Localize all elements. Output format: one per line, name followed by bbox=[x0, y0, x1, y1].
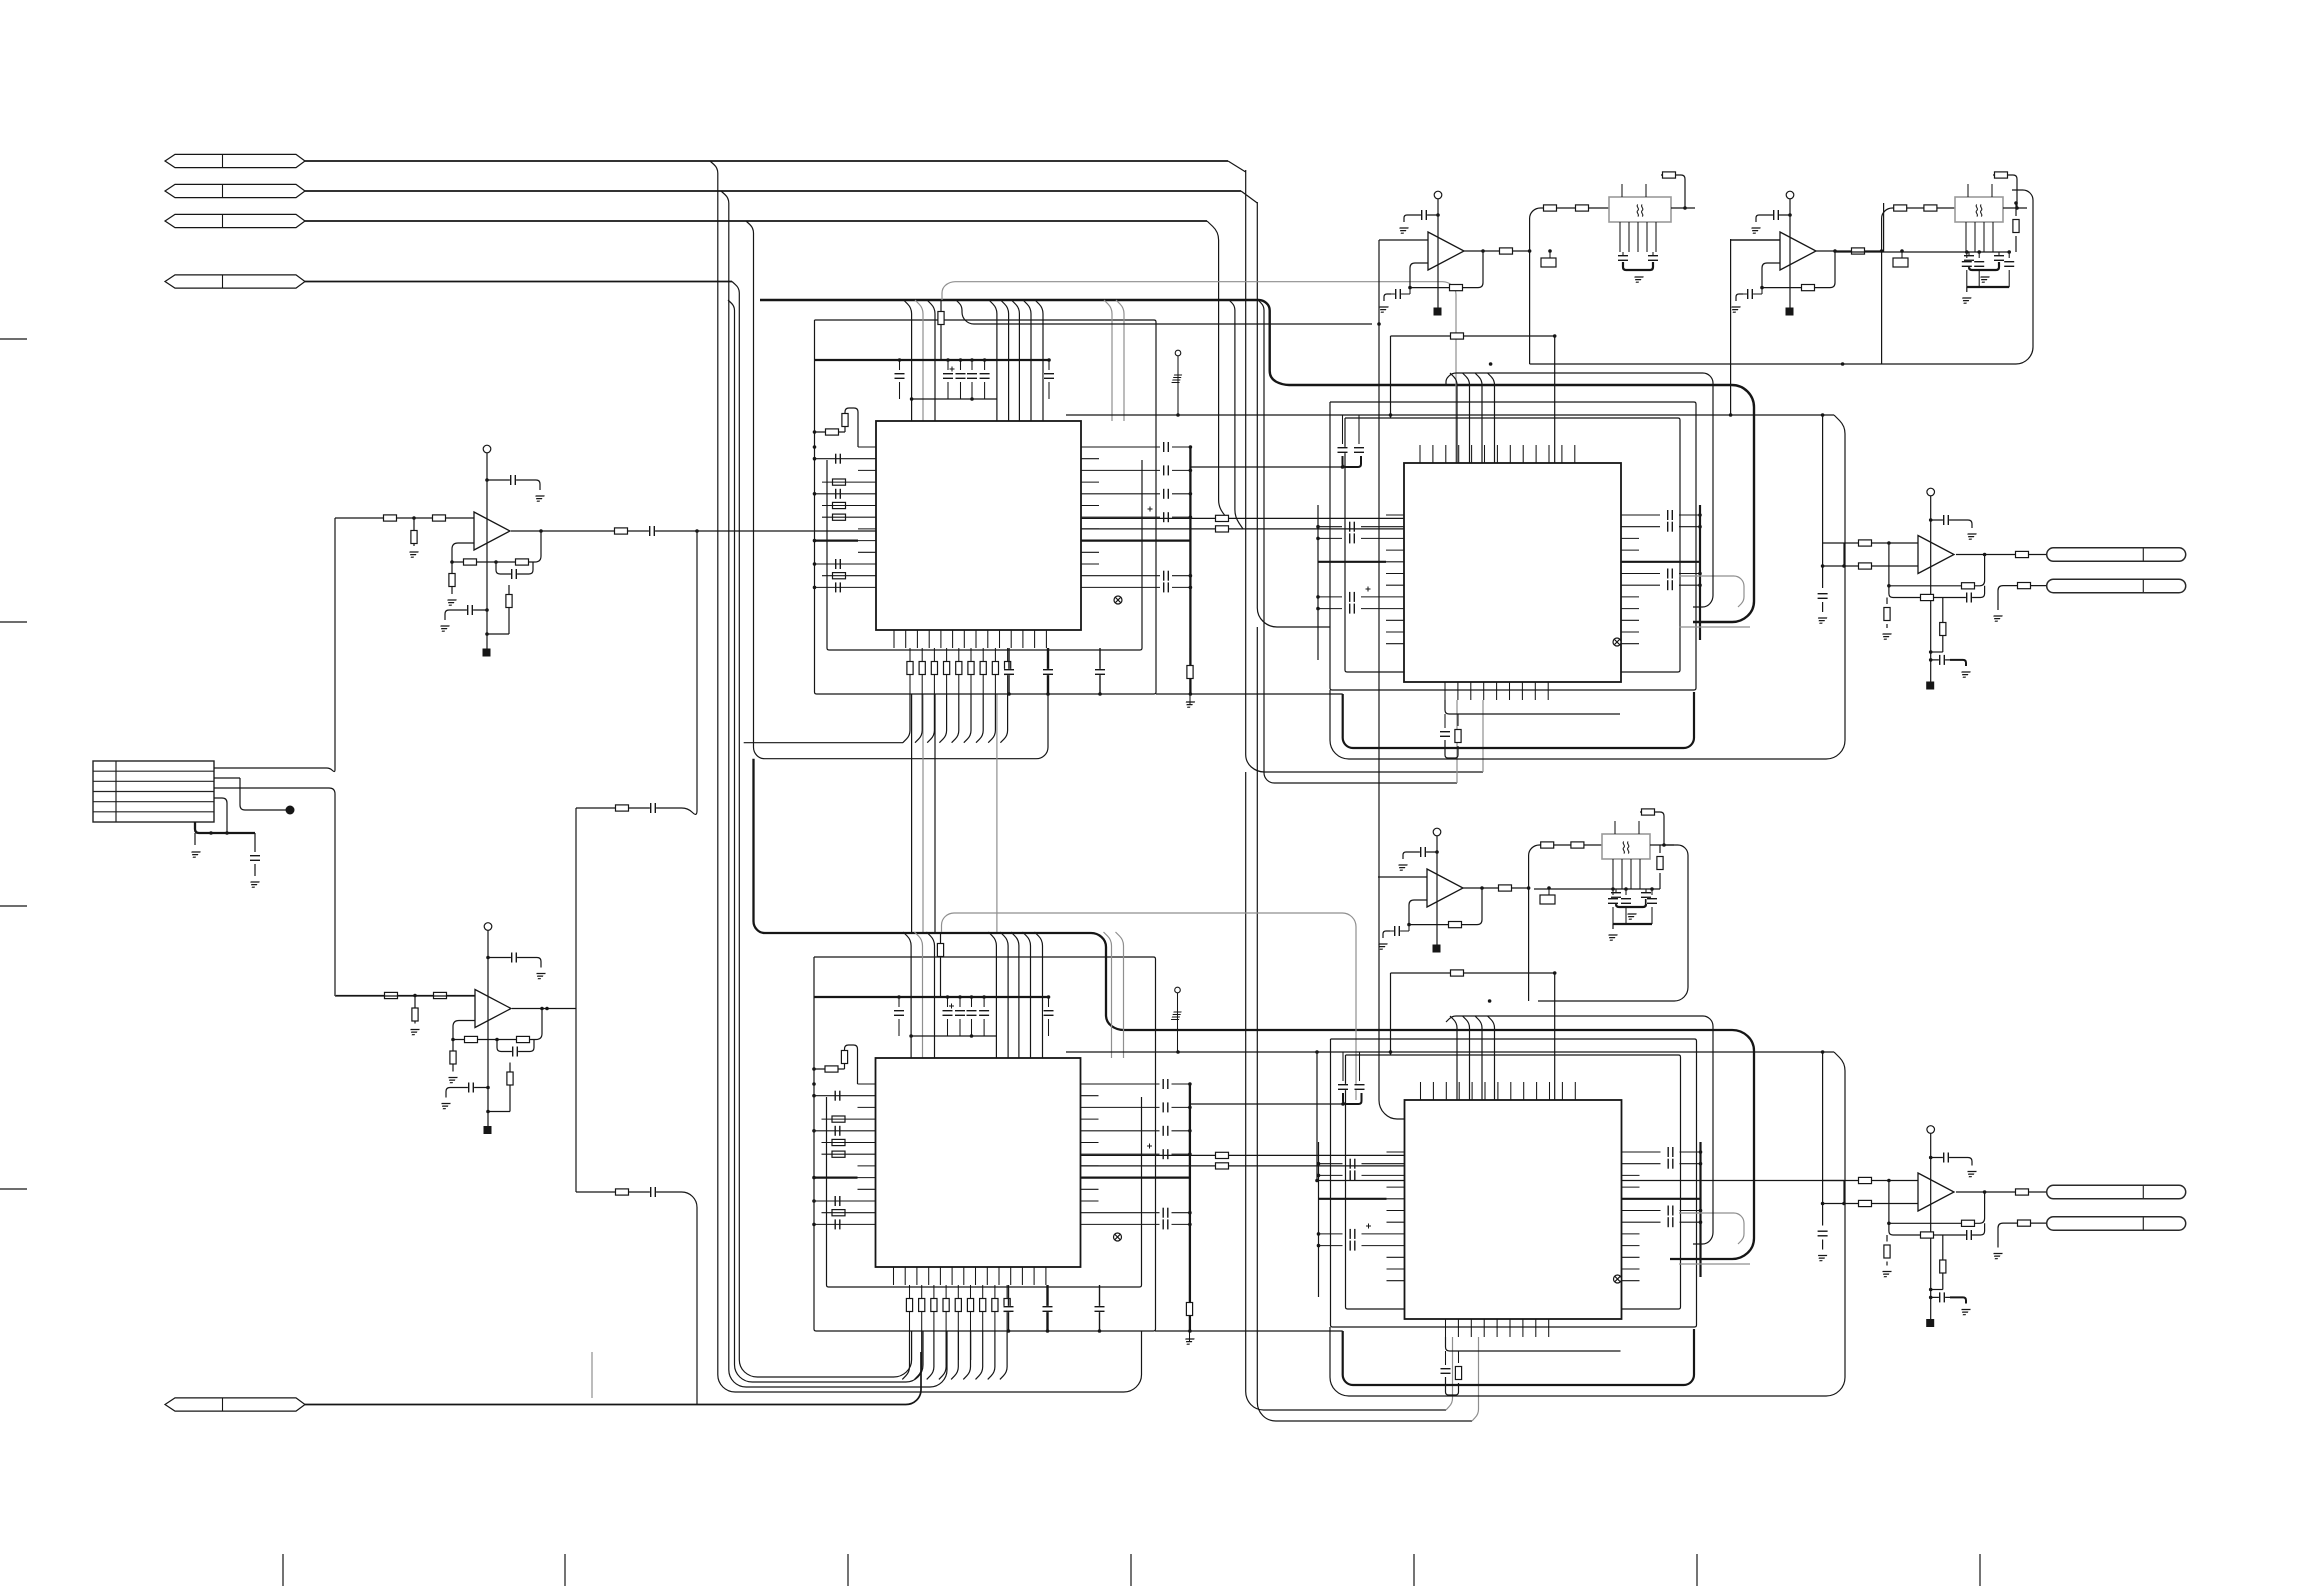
capacitor U2 decouple 972 bbox=[966, 1010, 977, 1016]
pin U1 left 9 bbox=[858, 540, 876, 542]
resistor A2 in2 bbox=[434, 992, 447, 998]
wire U3 rcap2 585.2 bbox=[1679, 584, 1700, 586]
wire U2 R 517.2 bbox=[1099, 1153, 1160, 1155]
pin U1 bottom 10 bbox=[999, 630, 1001, 648]
resistor F3 out bbox=[1657, 857, 1663, 870]
pin U4 left 5 bbox=[1387, 1198, 1405, 1200]
net connector J5 bbox=[165, 1398, 305, 1411]
ground C1 res bbox=[1881, 634, 1892, 639]
op-amp A1 bbox=[474, 512, 510, 550]
capacitor C1 in bbox=[1817, 593, 1828, 599]
capacitor U1 decouple 972 bbox=[967, 373, 978, 379]
pin U4 top 3 bbox=[1445, 1082, 1447, 1100]
junction U3 rc 526.7 bbox=[1698, 525, 1702, 529]
wire A1 fb cap loop bbox=[496, 562, 533, 574]
pin U4 top 12 bbox=[1561, 1082, 1563, 1100]
wire U1 L5 bbox=[822, 516, 858, 518]
junction U1 rail 899.5 bbox=[898, 358, 902, 362]
pin U4 bottom 3 bbox=[1470, 1319, 1472, 1337]
U4 polarized mark bbox=[1366, 1224, 1371, 1229]
pin U4 top 9 bbox=[1523, 1082, 1525, 1100]
capacitor A2 low bbox=[468, 1082, 474, 1093]
junction F2 2009.2 bbox=[2007, 250, 2011, 254]
wire A2 fb2 bbox=[453, 1009, 542, 1040]
wire B2 fout bbox=[2003, 207, 2027, 209]
wire B2 trim lead bbox=[1901, 251, 1903, 258]
wire B3 fb2 bbox=[1409, 888, 1482, 925]
wire B3 fbcap drop bbox=[1408, 925, 1410, 931]
resistor B3 out bbox=[1499, 885, 1512, 891]
capacitor B3 fb bbox=[1394, 926, 1400, 937]
capacitor A1 low bbox=[467, 605, 473, 616]
pin U2 bottom 11 bbox=[1010, 1267, 1012, 1285]
pin U1 right 10 bbox=[1081, 551, 1099, 553]
junction A1 low2 bbox=[485, 632, 489, 636]
wire U2 bres merge 1 bbox=[902, 1331, 909, 1379]
wire U2 bcap lead 1100 bbox=[1099, 1285, 1101, 1331]
junction B2 supply bbox=[1788, 213, 1792, 217]
capacitor U2 decouple 1049 bbox=[1043, 1010, 1054, 1016]
wire IC4 top feed 4 bbox=[1488, 1016, 1495, 1100]
wire U1U2 tie 4 bbox=[996, 694, 998, 932]
junction y415 b bbox=[1389, 413, 1393, 417]
resistor U1 bottom 3 bbox=[931, 662, 937, 675]
border tick left 3 bbox=[0, 905, 27, 907]
wire F3 res lead bbox=[1659, 845, 1661, 853]
net stub A1 bbox=[483, 649, 491, 657]
bus vertical 2 (net2 drop) bbox=[721, 191, 947, 1387]
wire U2 bres merge 5 bbox=[951, 1331, 958, 1379]
ground C2 supply bbox=[1966, 1172, 1977, 1177]
resistor U1 L2 bbox=[833, 479, 846, 485]
junction B3 out bbox=[1480, 886, 1484, 890]
wire U1 L9 bbox=[815, 586, 859, 588]
net connector J3 bbox=[165, 214, 305, 227]
wire gray U4 bottom pin riser 1 bbox=[1446, 1337, 1453, 1410]
resistor C1 gnd bbox=[1884, 608, 1890, 621]
wire B1 input bbox=[1379, 239, 1428, 241]
wire y973 feed bbox=[1391, 972, 1555, 974]
pin U3 left 2 bbox=[1386, 526, 1404, 528]
pin U1 bottom 7 bbox=[963, 630, 965, 648]
pin U1 right 13 bbox=[1081, 586, 1099, 588]
pin B1 fb4 bbox=[1655, 222, 1657, 252]
pin U4 right 10 bbox=[1622, 1256, 1640, 1258]
wire C1 pill2 feed bbox=[1998, 586, 2047, 610]
junction U1 R 493.8 bbox=[1189, 492, 1193, 496]
resistor U1 L4 bbox=[833, 502, 846, 508]
wire U2 tp lead bbox=[1177, 993, 1179, 1052]
pin B2 fb2 bbox=[1983, 222, 1985, 252]
pin U4 bottom 7 bbox=[1522, 1319, 1524, 1337]
wire U4 rcap2 515 bbox=[1680, 1151, 1701, 1153]
capacitor U4 R 515 bbox=[1667, 1147, 1673, 1158]
junction U1 lrail 458.7 bbox=[813, 457, 817, 461]
wire A2 low res lead bbox=[509, 1063, 511, 1112]
wire U3 rcap 526.7 bbox=[1639, 526, 1660, 528]
wire B1 bias bbox=[1437, 199, 1439, 310]
wire U1 decouple rail bbox=[815, 359, 1050, 361]
resistor U1 bottom 6 bbox=[968, 662, 974, 675]
resistor A2 fb2 bbox=[517, 1036, 530, 1042]
wire U2 R 575.7 bbox=[1099, 1212, 1160, 1214]
pin U4 left 8 bbox=[1387, 1233, 1405, 1235]
ground A2 fb bbox=[447, 1078, 458, 1083]
wire U1 L6 thick bbox=[815, 539, 859, 541]
junction U3 lc 538.4 bbox=[1316, 537, 1320, 541]
capacitor U2 R 517.2 bbox=[1162, 1149, 1168, 1160]
pin U3 bottom 2 bbox=[1457, 682, 1459, 700]
pin U3 right 4 bbox=[1621, 549, 1639, 551]
wire U2 bcap lead 1048 bbox=[1046, 1285, 1048, 1331]
pin U4 bottom 2 bbox=[1457, 1319, 1459, 1337]
wire net3 to top bus and U1 loop bbox=[746, 221, 1048, 759]
pin U4 right 3 bbox=[1622, 1174, 1640, 1176]
wire B2 loop left bbox=[1881, 251, 1883, 364]
wire A2 in feed bbox=[335, 995, 475, 997]
wire B2 input h bbox=[1731, 239, 1780, 241]
wire bus drop 1234 bbox=[1229, 300, 1243, 529]
wire U1 cap lead 960.5 bbox=[960, 360, 962, 370]
net stub A2 bbox=[484, 1126, 492, 1134]
pin U4 top 1 bbox=[1420, 1082, 1422, 1100]
shield tie U2 bbox=[1114, 1233, 1122, 1241]
wire B2 fo bus bbox=[1969, 262, 1999, 270]
junction B2 fout bbox=[2015, 206, 2019, 210]
pin U4 right 9 bbox=[1622, 1245, 1640, 1247]
wire U3 rcap 585.2 bbox=[1639, 584, 1660, 586]
wire U2 R2 447 bbox=[1172, 1083, 1190, 1085]
wire net y415 bbox=[1066, 414, 1834, 416]
IC U3 bbox=[1404, 463, 1621, 682]
wire U1 top feed 1019.4 bbox=[1011, 300, 1019, 421]
ground A1 divider bbox=[408, 552, 419, 557]
capacitor C2 supply bbox=[1943, 1152, 1949, 1163]
wire U1 R 470.4 bbox=[1099, 469, 1160, 471]
junction B2 trim bbox=[1900, 249, 1904, 253]
capacitor F3 1626 bbox=[1621, 898, 1632, 904]
wire U1 bres merge 1 bbox=[903, 694, 910, 743]
wire block gnd bus bbox=[195, 822, 255, 833]
wire U2 top feed 923 bbox=[915, 932, 923, 1058]
pin B1 fb2 bbox=[1637, 222, 1639, 252]
wire C2 supply cap lead bbox=[1931, 1157, 1958, 1159]
resistor B1 out bbox=[1500, 248, 1513, 254]
wire B3 input bbox=[1378, 876, 1427, 878]
resistor link 1155.4 bbox=[1216, 1152, 1229, 1158]
wire B3 trim lead bbox=[1548, 888, 1550, 895]
pin U2 left 3 bbox=[858, 1106, 876, 1108]
junction U1 lrail 587.4 bbox=[813, 586, 817, 590]
pin U4 top 6 bbox=[1484, 1082, 1486, 1100]
junction U1 bottom 1009 bbox=[1007, 692, 1011, 696]
junction B1 out2 bbox=[1528, 249, 1532, 253]
wire IC3 top feed 2 bbox=[1463, 373, 1470, 463]
wire B1 fbcap drop bbox=[1409, 288, 1411, 294]
wire U1 L8 bbox=[822, 575, 858, 577]
wire U1 top feed 996.9 bbox=[989, 300, 997, 421]
U3 polarized mark bbox=[1366, 587, 1371, 592]
pin U4 top 11 bbox=[1549, 1082, 1551, 1100]
border tick bottom 4 bbox=[1130, 1554, 1132, 1586]
pin U4 right 6 bbox=[1622, 1210, 1640, 1212]
wire U1 L3 bbox=[815, 493, 859, 495]
wire A2 fb1 bbox=[453, 1021, 475, 1040]
ground C2 res bbox=[1881, 1272, 1892, 1277]
capacitor U2 L7 bbox=[834, 1196, 840, 1207]
resistor B3 f1 bbox=[1541, 842, 1554, 848]
capacitor B2 fo1 bbox=[1964, 255, 1975, 261]
junction B2 loop bbox=[1841, 362, 1845, 366]
wire U1 top feed 923 bbox=[915, 300, 923, 421]
wire U1 L2 bbox=[822, 481, 858, 483]
wire net y1052 bbox=[1066, 1051, 1834, 1053]
junction U2 rrail bottom bbox=[1188, 1329, 1192, 1333]
pin U2 left 9 bbox=[858, 1177, 876, 1179]
wire F3 cap lead 1613 bbox=[1612, 889, 1614, 895]
connector block row 2 bbox=[93, 780, 214, 782]
wire B2 bias bbox=[1789, 199, 1791, 310]
wire U2 decouple rail bbox=[814, 996, 1049, 998]
pin U3 bottom 7 bbox=[1521, 682, 1523, 700]
capacitor U2 bottom 1100 bbox=[1094, 1306, 1105, 1312]
capacitor U1 R 587.4 bbox=[1163, 582, 1169, 593]
pin U2 right 10 bbox=[1081, 1188, 1099, 1190]
junction B1 fb bbox=[1408, 286, 1412, 290]
wire U2 outer loop bbox=[814, 957, 1156, 1331]
wire B3 fo2 lead bbox=[1645, 889, 1647, 892]
wire U2 top feed 996.9 bbox=[988, 932, 996, 1058]
pin U2 bottom 7 bbox=[963, 1267, 965, 1285]
ground C1 in bbox=[1816, 618, 1827, 623]
wire U2 cap lead2 960.5 bbox=[959, 1019, 961, 1036]
junction U2 bottom 1009 bbox=[1007, 1329, 1011, 1333]
wire U2 top feed 1031 bbox=[1023, 932, 1031, 1058]
wire U2 bres merge 2 bbox=[915, 1331, 922, 1379]
resistor U1 bottom 9 bbox=[1005, 662, 1011, 675]
wire U2 bres merge 3 bbox=[927, 1331, 934, 1379]
wire B3 filter in bbox=[1529, 845, 1602, 888]
capacitor U2 R 587.4 bbox=[1162, 1219, 1168, 1230]
junction U2 rail 948 bbox=[946, 995, 950, 999]
wire U4 L thick bbox=[1319, 1198, 1387, 1200]
bus vertical 1 (net1 drop) bbox=[710, 161, 1142, 1392]
wire U2 R thick bbox=[1081, 1176, 1190, 1178]
pin U1 bottom 2 bbox=[905, 630, 907, 648]
capacitor U3 L 596.9 bbox=[1349, 591, 1355, 602]
pin B2 fb1 bbox=[1974, 222, 1976, 252]
wire U4 bottom thick hook bbox=[1343, 1329, 1694, 1385]
capacitor row808 bbox=[650, 803, 656, 814]
wire U2 L3 bbox=[814, 1130, 858, 1132]
junction y973 bbox=[1553, 971, 1557, 975]
wire U1 R 587.4 bbox=[1099, 586, 1160, 588]
wire U4 bcap lead bbox=[1445, 1351, 1447, 1365]
resistor U2 bottom 2 bbox=[919, 1299, 925, 1312]
wire U1 bres lead 2 bbox=[921, 648, 923, 694]
wire U2 L4 bbox=[822, 1142, 858, 1144]
wire row808 bbox=[576, 531, 697, 814]
pin U3 right 8 bbox=[1621, 596, 1639, 598]
wire F3 cap lead 1626 bbox=[1625, 889, 1627, 895]
capacitor F3 1652 bbox=[1647, 898, 1658, 904]
wire U2 cap lead2 899.5 bbox=[898, 1019, 900, 1036]
wire C1 gndres lead bbox=[1886, 598, 1888, 605]
wire C2 in+ extension a bbox=[1317, 1180, 1404, 1182]
ground C1 pill2 bbox=[1992, 616, 2003, 621]
junction A1 out bbox=[539, 529, 543, 533]
wire A1 supply cap lead bbox=[487, 479, 530, 481]
wire B1 fbcap lead bbox=[1391, 293, 1410, 295]
wire U2 UL bbox=[814, 1068, 845, 1070]
capacitor B3 fo1 bbox=[1611, 892, 1622, 898]
wire U4 gray stub a bbox=[1679, 1213, 1744, 1244]
wire U4 rcap 515 bbox=[1640, 1151, 1661, 1153]
wire U1 R 575.7 bbox=[1099, 575, 1160, 577]
resistor U2 pullup bbox=[937, 944, 943, 957]
junction A1 low bbox=[485, 608, 489, 612]
wire U1 bres merge 3 bbox=[927, 694, 934, 743]
shield tie U1 bbox=[1114, 596, 1122, 604]
pin U3 right 7 bbox=[1621, 584, 1639, 586]
wire U2 R2 575.7 bbox=[1172, 1212, 1190, 1214]
wire C2 gndres lead2 bbox=[1886, 1262, 1888, 1266]
wire C2 out line bbox=[1956, 1191, 2047, 1193]
capacitor B2 fb bbox=[1747, 289, 1753, 300]
junction U2 R 575.7 bbox=[1188, 1211, 1192, 1215]
junction B3 out2 bbox=[1527, 886, 1531, 890]
pin B1 fb3 bbox=[1646, 222, 1648, 252]
wire U2 inner loop bbox=[827, 1097, 1142, 1287]
ground block1 bbox=[190, 852, 201, 857]
net connector J1 bbox=[165, 154, 305, 167]
pin U1 left 3 bbox=[858, 469, 876, 471]
pin B1 fb0 bbox=[1619, 222, 1621, 252]
wire U2 cap lead 960.5 bbox=[959, 997, 961, 1007]
capacitor U2 L9 bbox=[834, 1219, 840, 1230]
net stub C1 bbox=[1926, 682, 1934, 690]
wire U1 cap lead2 1049 bbox=[1048, 382, 1050, 399]
pin U3 left 8 bbox=[1386, 596, 1404, 598]
wire U3 big loop bbox=[1330, 415, 1845, 759]
pin U4 top 13 bbox=[1574, 1082, 1576, 1100]
wire F2 cap lead 1966.8 bbox=[1966, 252, 1968, 258]
resistor A2 low bbox=[507, 1072, 513, 1085]
wire U2 below 1 bbox=[958, 1331, 960, 1360]
wire C1 in+ line bbox=[1823, 542, 1918, 544]
border tick left 2 bbox=[0, 621, 27, 623]
junction U2 rail 960.5 bbox=[958, 995, 962, 999]
wire A1 out bbox=[511, 530, 876, 532]
wire U2 bres lead 2 bbox=[921, 1285, 923, 1331]
junction F2 1979.2 bbox=[1977, 250, 1981, 254]
pin U3 right 5 bbox=[1621, 561, 1639, 563]
connector block row 3 bbox=[93, 791, 214, 793]
junction U1 R 575.7 bbox=[1189, 574, 1193, 578]
wire U2 bres lead 1 bbox=[909, 1285, 911, 1331]
resistor U1 bottom 1 bbox=[907, 662, 913, 675]
wire U1 R 447 bbox=[1099, 446, 1160, 448]
junction U2 rail 1049 bbox=[1047, 995, 1051, 999]
wire U2 top feed 1043 bbox=[1035, 932, 1043, 1058]
wire A1 low join bbox=[487, 633, 509, 635]
wire B1 fo1 lead bbox=[1622, 252, 1624, 255]
capacitor U1 decouple 899.5 bbox=[894, 373, 905, 379]
wire F2 cap lead2 1966.8 bbox=[1966, 270, 1968, 287]
junction A2 fb m bbox=[495, 1038, 499, 1042]
wire A1 fb1 bbox=[452, 543, 474, 562]
wire U2 bres lead 4 bbox=[945, 1285, 947, 1331]
ground A1 supply bbox=[534, 496, 545, 501]
wire U4 lcap2 538.4 bbox=[1362, 1174, 1387, 1176]
junction U4 rc 526.7 bbox=[1699, 1162, 1703, 1166]
pin B2 fb0 bbox=[1965, 222, 1967, 252]
capacitor B1 fb bbox=[1395, 289, 1401, 300]
wire U4 lcap 596.9 bbox=[1319, 1233, 1343, 1235]
junction U2 bottom 1048 bbox=[1046, 1329, 1050, 1333]
junction U1 capbot2 bbox=[970, 397, 974, 401]
junction U3 ulc bbox=[1341, 465, 1345, 469]
op-amp B3 bbox=[1427, 869, 1463, 907]
wire net2 corner bbox=[1241, 191, 1257, 203]
pin B3 fb3 bbox=[1639, 859, 1641, 889]
pin U4 top 5 bbox=[1471, 1082, 1473, 1100]
wire link U2U4 1155.4 bbox=[1081, 1154, 1405, 1156]
capacitor C2 low bbox=[1939, 1292, 1945, 1303]
wire C2 supply gnd lead bbox=[1958, 1158, 1972, 1166]
junction U2 lrail 587.4 bbox=[812, 1223, 816, 1227]
wire F2 cap bus bbox=[1967, 286, 2009, 288]
pin U1 right 4 bbox=[1081, 481, 1099, 483]
resistor B2 f2 bbox=[1924, 205, 1937, 211]
capacitor U3 R 515 bbox=[1667, 510, 1673, 521]
wire A2 supply cap lead bbox=[488, 957, 531, 959]
wire B1 supply cap lead bbox=[1413, 214, 1438, 216]
pin U2 right 9 bbox=[1081, 1177, 1099, 1179]
wire U1 L1 bbox=[815, 458, 859, 460]
junction A2 fb l bbox=[451, 1038, 455, 1042]
wire U4 lcap 526.7 bbox=[1319, 1163, 1343, 1165]
pin B3 ft2 bbox=[1638, 821, 1640, 834]
ground U1 right rail bbox=[1184, 702, 1195, 707]
capacitor row1192 bbox=[650, 1187, 656, 1198]
wire net2 horizontal bbox=[305, 190, 1241, 192]
wire U2 to U4hook bottom bbox=[1155, 1330, 1343, 1332]
wire C1 incap lead2 bbox=[1822, 602, 1824, 612]
wire U1 cap lead2 899.5 bbox=[899, 382, 901, 399]
pin U3 right 9 bbox=[1621, 608, 1639, 610]
op-amp B1 bbox=[1428, 232, 1464, 270]
capacitor U3 L 538.4 bbox=[1349, 533, 1355, 544]
op-amp A2 bbox=[475, 990, 511, 1028]
wire y336 feed bbox=[1391, 335, 1555, 337]
wire U2 bres merge 8 bbox=[988, 1331, 995, 1379]
wire gray U4 bottom pin riser 2 bbox=[1472, 1337, 1479, 1421]
junction B3 fout bbox=[1662, 843, 1666, 847]
resistor U1 bottom 4 bbox=[944, 662, 950, 675]
junction B1 loop bbox=[1489, 362, 1493, 366]
wire U4 gray stub b bbox=[1679, 1263, 1750, 1265]
wire IC3 top feed 3 bbox=[1475, 373, 1482, 463]
wire U3 bottom bus bbox=[1445, 700, 1620, 714]
capacitor U4 R 573.5 bbox=[1667, 1205, 1673, 1216]
wire y324 bbox=[956, 300, 1372, 324]
capacitor A2 supply bbox=[511, 952, 517, 963]
junction U1 capbot bbox=[910, 397, 914, 401]
wire U2 R 493.8 bbox=[1099, 1130, 1160, 1132]
wire F2 cap lead 1979.2 bbox=[1978, 252, 1980, 258]
resistor B1 f1 bbox=[1544, 205, 1557, 211]
